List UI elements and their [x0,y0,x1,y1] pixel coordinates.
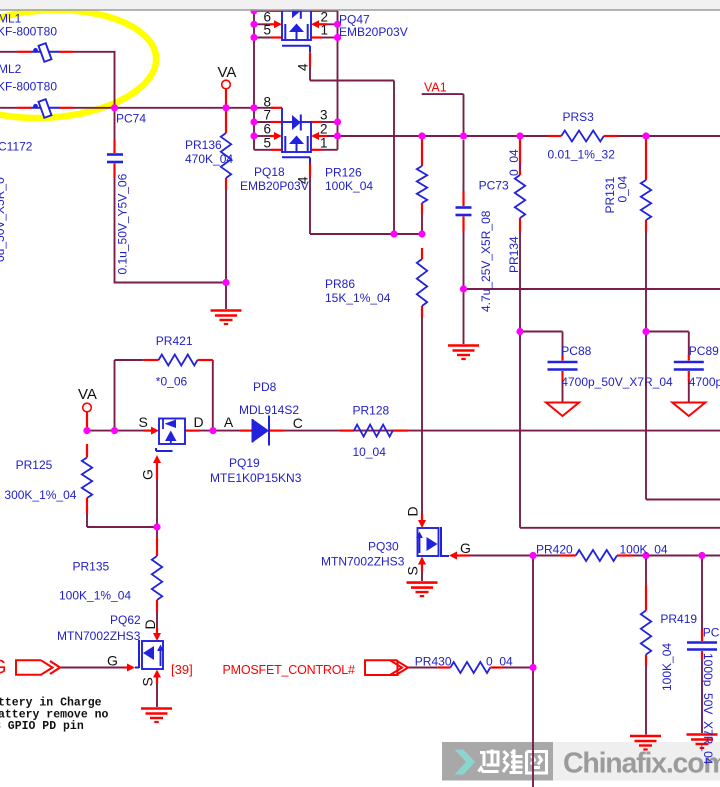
wire PR136 vertical [225,189,227,283]
svg-text:VA: VA [218,64,237,81]
label PR136 value [185,152,233,166]
svg-text:1: 1 [320,135,328,150]
resistor PR125 symbol [82,458,92,499]
red stub PR420 right [617,554,633,556]
svg-text:D: D [142,619,158,629]
wire main output row [326,135,720,137]
red stub PC74 top [113,140,115,153]
svg-text:PQ62: PQ62 [110,613,141,627]
label PR421 value [156,375,188,389]
label ML2 value [0,79,57,93]
ground PQ30 source [407,583,438,597]
red stub VA circle [86,412,88,428]
label PC88 value [561,375,673,389]
top toolbar band [0,0,720,10]
capacitor PC89 symbol [674,362,704,370]
svg-text:PR421: PR421 [156,334,193,348]
red pin stubs PQ18 pin7/3 [271,121,322,123]
ferrite bead ML2 [31,99,59,118]
svg-text:PQ19: PQ19 [229,456,260,470]
red stub PR419 top [645,585,647,611]
red stub PR134 top [519,139,521,175]
red stub ML1 right [59,51,73,53]
svg-text:1: 1 [321,22,329,37]
red stub PR126 bottom [421,203,423,214]
red stub PC73 bottom [462,217,464,232]
watermark dark box [442,742,553,781]
svg-text:100K_04: 100K_04 [325,179,373,193]
red stub PQ18 gate [309,164,311,178]
svg-text:PR86: PR86 [325,277,355,291]
svg-text:0_04: 0_04 [616,175,630,202]
capacitor PC74 symbol [107,155,123,163]
watermark light box [553,742,720,781]
svg-text:[39]: [39] [171,662,193,677]
svg-text:3: 3 [320,108,328,123]
offpage connector G [16,660,60,674]
svg-text:PR420: PR420 [536,543,573,557]
resistor PR126 symbol [417,166,427,203]
red stub PQ47 gate [309,53,311,67]
red stub PR421 right [198,359,213,361]
label ML2 [0,62,22,76]
red pin stubs PQ47 row top [270,10,321,12]
red stub ML2 right [59,107,73,109]
svg-text:S: S [140,677,156,686]
svg-text:G: G [140,469,156,480]
red stub PRS3 left [548,135,562,137]
label PC74 [116,112,146,126]
label PQ30 [368,540,399,554]
red stub PR420 left [560,554,576,556]
svg-text:7: 7 [264,108,272,123]
red stub PRS3 right [604,135,618,137]
svg-text:1000p_50V_X7R_04: 1000p_50V_X7R_04 [701,653,715,765]
wire ML1 row [0,51,116,53]
capacitor PC88 symbol [548,362,578,370]
label PQ47 [339,13,370,27]
red stub ML2 left [17,107,31,109]
svg-text:PR430: PR430 [415,655,452,669]
svg-text:PQ30: PQ30 [368,540,399,554]
resistor PR131 symbol [641,180,651,220]
resistor PR419 symbol [641,611,651,655]
svg-text:4: 4 [296,176,311,184]
watermark chevron icon [455,750,476,775]
svg-text:A: A [224,414,234,430]
wire PQ18 pin5/1 row [254,149,338,151]
svg-text:PR126: PR126 [325,166,362,180]
svg-text:ML2: ML2 [0,62,22,76]
label ML1 value [0,24,57,38]
wire left pin bus [253,10,255,150]
label PC73 [479,179,509,193]
label PR419 value [660,643,674,691]
red stub PD8 cathode [269,430,285,432]
wire PR131 lower run [646,332,720,500]
label PR420 [536,543,573,557]
label PQ19 part [210,471,302,485]
svg-text:PC88: PC88 [561,344,591,358]
red stub PR125 bottom [86,498,88,514]
svg-text:MTE1K0P15KN3: MTE1K0P15KN3 [210,471,302,485]
red stub PR128 left [340,430,354,432]
red stub PC90 bottom [701,651,703,660]
wire PR131 vertical [645,231,647,332]
label PQ30 part [321,555,405,569]
ground PC90 [687,735,718,749]
svg-text:0_04: 0_04 [507,149,521,176]
resistor PR134 symbol [515,175,525,218]
wire sense row y289 [464,288,720,290]
label PR125 [16,458,53,472]
wire VA row [87,430,145,432]
red stub PC88 top [561,355,563,361]
label VA top [218,64,237,81]
red pin arrows PQ18 pin6/2 [270,132,327,140]
red stub PR126 top [421,139,423,166]
pin labels PQ30 [405,506,471,575]
pin numbers PQ47 [264,10,329,38]
red stub PC90 top [701,630,703,641]
resistor PR86 symbol [417,259,427,306]
P-MOSFET PQ19 symbol [151,419,185,480]
red stub PR125 top [86,444,88,458]
wire PR430 row [408,667,533,669]
red stub ML1 left [17,51,31,53]
label PC90 [703,626,720,640]
node VA1 stub [422,94,464,136]
node VA circle mid [83,403,92,412]
label ML1 [0,12,22,26]
svg-text:PC74: PC74 [116,112,146,126]
label PR125 value [4,488,76,502]
note text line3 [0,720,84,733]
svg-text:5: 5 [264,135,272,150]
wire ground stem PC73 [463,289,465,344]
svg-text:0u_50V_X5R_0: 0u_50V_X5R_0 [0,177,7,262]
wire PQ62 gate wire [60,667,125,669]
node VA circle top [222,80,231,89]
wire PC89 branch [646,332,689,403]
svg-text:G: G [0,657,7,679]
watermark CJK text 迅维网 [479,750,547,774]
wire PR125 stub top [86,412,88,431]
wire ground stem PQ62 [156,683,158,708]
red pin stubs PQ18 pin5/1 [271,149,322,151]
label PQ19 [229,456,260,470]
pin label PQ19 G [140,469,156,480]
svg-text:PR135: PR135 [73,560,110,574]
wire PR135 tail [156,612,158,629]
dual P-MOSFET PQ18 symbol [282,108,311,164]
wire PR419 vertical [645,556,647,735]
red stub PR430 left [438,666,451,668]
svg-text:VA1: VA1 [424,81,447,95]
svg-text:ML1: ML1 [0,12,22,26]
resistor PRS3 symbol [561,131,604,142]
svg-text:PQ18: PQ18 [254,165,285,179]
svg-text:300K_1%_04: 300K_1%_04 [4,488,76,502]
wire ground stem PQ30 [421,571,423,581]
wire PQ47 pin6/2 row [254,23,338,25]
svg-text:MTN7002ZHS3: MTN7002ZHS3 [57,629,141,643]
N-MOSFET PQ62 symbol [124,628,164,684]
label PR126 [325,166,362,180]
red stub PR135 bottom [156,600,158,612]
label G red offpage [0,657,7,679]
svg-text:4: 4 [296,63,311,71]
label PQ62 [110,613,141,627]
label PR86 [325,277,355,291]
wire PR125 vertical [87,514,157,527]
pin numbers PQ18 [264,95,328,151]
red stub PR131 top [645,139,647,180]
label PD8 part [239,403,299,417]
note text line2 [0,708,109,721]
ground triangle PC88 [546,403,579,417]
svg-text:15K_1%_04: 15K_1%_04 [325,291,391,305]
svg-text:PR134: PR134 [507,236,521,273]
ground triangle PC89 [672,403,705,417]
label PR128 [353,404,390,418]
wire PR126 tail [421,213,423,234]
wire PQ18 gate run [310,176,422,234]
red pin arrows PQ47 row mid [270,20,327,28]
resistor PR135 symbol [152,556,162,600]
wire PC73 vertical [463,140,465,289]
svg-text:2: 2 [320,122,328,137]
label left edge clipped value [0,177,7,262]
yellow highlight ellipse [0,4,159,124]
label PQ18 part [240,179,309,193]
svg-text:PR128: PR128 [353,404,390,418]
label PD8 [253,380,277,394]
label PC89 [689,344,719,358]
label PR86 value [325,291,391,305]
label PR430 [415,655,452,669]
red stub PR134 bottom [519,218,521,231]
wire diode row [285,430,720,432]
svg-text:*0_06: *0_06 [156,375,188,389]
red stub PC74 bottom [113,164,115,179]
red stub PC89 top [688,355,690,361]
label PR135 [73,560,110,574]
ground PQ62 source [141,709,172,723]
svg-text:D: D [194,414,204,430]
red stub PQ19 drain [185,430,200,432]
svg-text:S: S [139,414,148,430]
capacitor PC73 symbol [456,208,472,216]
svg-text:100K_04: 100K_04 [620,543,668,557]
red stub PR419 bottom [645,655,647,667]
svg-text:MDL914S2: MDL914S2 [239,403,299,417]
svg-text:C: C [293,415,303,431]
wire PR86 tail [421,316,423,515]
resistor PR136 symbol [221,133,231,178]
red stub PD8 anode [240,430,253,432]
svg-text:C1172: C1172 [0,140,33,154]
svg-text:PR136: PR136 [185,138,222,152]
wire PR421 loop [115,360,213,431]
svg-text:G: G [107,653,118,669]
label PC90 value [701,653,715,765]
svg-text:5: 5 [264,22,272,37]
wire PQ47 pin row top [254,10,338,12]
label PC74 value [116,173,130,274]
resistor PR420 symbol [576,550,617,561]
red stub PC88 bottom [561,371,563,381]
svg-text:PC89: PC89 [689,344,719,358]
svg-text:G: G [460,540,471,556]
svg-text:100K_04: 100K_04 [660,643,674,691]
wire PC88 branch [520,332,563,403]
red stub PR135 top [156,538,158,557]
svg-text:0.01_1%_32: 0.01_1%_32 [548,148,616,162]
label VA mid [78,386,97,403]
label PQ47 part [339,25,408,39]
wire PQ47 gate run [310,66,394,234]
svg-text:100K_1%_04: 100K_1%_04 [59,589,131,603]
note text line1 [0,697,102,710]
label [39] [171,662,193,677]
red pin stubs PQ47 row bottom [271,36,322,38]
svg-text:4.7u_25V_X5R_08: 4.7u_25V_X5R_08 [479,210,493,312]
label PMOSFET_CONTROL# [223,663,355,677]
svg-text:PRS3: PRS3 [563,110,595,124]
label PC73 value [479,210,493,312]
wire ground stem PC74 net [225,283,227,310]
pin number PQ47 gate 4 [296,63,311,71]
svg-text:470K_04: 470K_04 [185,152,233,166]
svg-text:PR419: PR419 [660,612,697,626]
label PR131 value [616,175,630,202]
svg-text:6: 6 [264,122,272,137]
wire PC74 bottom horizontal [115,282,227,284]
svg-text:KF-800T80: KF-800T80 [0,24,57,38]
red stub PR131 bottom [645,220,647,232]
ground PR419 [630,736,661,750]
red stub PC89 bottom [688,371,690,381]
wire PQ18 pin7/3 row [254,121,338,123]
svg-text:0.1u_50V_Y5V_06: 0.1u_50V_Y5V_06 [116,173,130,274]
svg-text:PC73: PC73 [479,179,509,193]
red stub PQ19 source [144,430,151,432]
red stub PR128 right [393,430,409,432]
label PC88 [561,344,591,358]
svg-text:PMOSFET_CONTROL#: PMOSFET_CONTROL# [223,663,355,677]
offpage connector PMOSFET_CONTROL# [365,660,408,675]
resistor PR430 symbol [450,662,490,673]
label PR420 value [620,543,668,557]
resistor PR128 symbol [354,425,393,437]
label PR430 value [486,655,513,669]
red pin stub PQ18 pin8 [271,107,282,109]
red stub PR86 bottom [421,306,423,317]
svg-text:0_04: 0_04 [486,655,513,669]
wire PQ19 gate run [156,479,158,538]
wire right pin bus [337,11,339,150]
svg-text:KF-800T80: KF-800T80 [0,79,57,93]
capacitor PC90 symbol [687,643,717,650]
svg-text:PD8: PD8 [253,380,277,394]
wire ML2 row [0,107,276,109]
watermark Chinafix.com [563,748,720,780]
red stub PR136 top [225,111,227,133]
red stub PR136 bottom [225,178,227,190]
label PRS3 [563,110,595,124]
svg-text:Chinafix.com: Chinafix.com [563,748,720,780]
red stub VA node [225,89,227,108]
wire PC74 vertical [114,108,116,284]
diode PD8 symbol [253,416,270,446]
label PR131 [603,176,617,213]
label VA1 [424,81,447,95]
label PQ62 part [57,629,141,643]
N-MOSFET PQ30 symbol [416,514,470,572]
red stub PC73 top [462,191,464,206]
label PR135 value [59,589,131,603]
label PR136 [185,138,222,152]
ground PC73 net [448,346,479,360]
label PR421 [156,334,193,348]
wire PR134 vertical [519,230,521,332]
red stub PR430 right [490,666,503,668]
label PR419 [660,612,697,626]
wire control vertical x533 [532,556,534,787]
label PRS3 value [548,148,616,162]
wire PQ47 pin5/1 row [254,37,338,39]
label PR126 value [325,179,373,193]
svg-text:S: S [405,566,421,575]
wire PC90 vertical [701,556,703,734]
svg-text:PC90: PC90 [703,626,720,640]
red stub PR421 left [143,359,158,361]
wire PQ30 gate row [470,555,720,557]
wire PQ19 drain link [200,430,240,432]
svg-text:4700p_50V_X7R_04: 4700p_50V_X7R_04 [561,375,673,389]
label PR134 value [507,149,521,176]
svg-text:MTN7002ZHS3: MTN7002ZHS3 [321,555,405,569]
svg-text:PR125: PR125 [16,458,53,472]
svg-text:4700p_50V_X7R_04: 4700p_50V_X7R_04 [689,375,720,389]
label PR134 [507,236,521,273]
wire PQ18 pin6/2 row [254,135,326,137]
svg-text:10_04: 10_04 [353,445,387,459]
svg-text:EMB20P03V: EMB20P03V [339,25,408,39]
label PC89 value [689,375,720,389]
ground PC74 net [211,311,242,325]
pin labels PQ62 [107,619,158,686]
pin number PQ18 gate 4 [296,176,311,184]
svg-text:VA: VA [78,386,97,403]
wire PQ30 drain from PR86 [0,0,1,1]
pin labels PQ19 [139,414,303,431]
dual P-MOSFET PQ47 symbol [282,3,311,53]
wire ML1 corner down [114,52,116,108]
label PR128 value [353,445,387,459]
ferrite bead ML1 [31,43,59,62]
resistor PR421 symbol [159,355,198,366]
label C1172 [0,140,33,154]
svg-text:C GPIO PD pin: C GPIO PD pin [0,720,84,733]
label PQ18 [254,165,285,179]
svg-text:D: D [405,506,421,516]
wire PR134 lower run [520,332,720,528]
red stub PR86 top [421,248,423,259]
